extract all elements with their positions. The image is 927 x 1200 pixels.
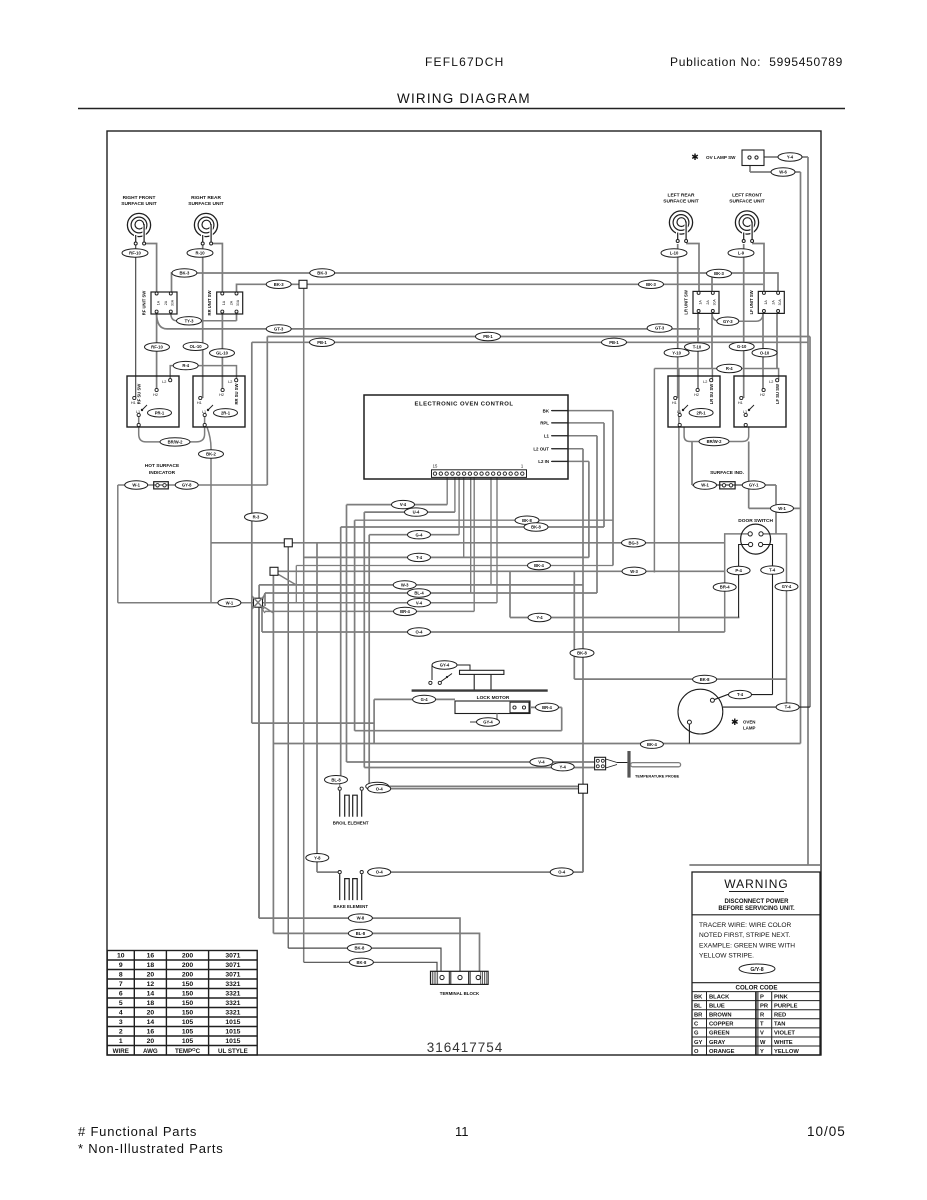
svg-text:LEFT FRONT: LEFT FRONT — [732, 193, 762, 199]
svg-text:O-4: O-4 — [416, 630, 424, 635]
svg-text:LEFT REAR: LEFT REAR — [668, 193, 695, 199]
svg-text:105: 105 — [182, 1019, 194, 1026]
svg-text:H1: H1 — [738, 401, 743, 405]
svg-text:200: 200 — [182, 962, 194, 969]
svg-text:ORANGE: ORANGE — [709, 1049, 735, 1055]
svg-text:30A: 30A — [236, 299, 240, 306]
svg-text:UL STYLE: UL STYLE — [218, 1048, 248, 1055]
svg-text:GY-4: GY-4 — [440, 663, 450, 668]
svg-text:BK-8: BK-8 — [577, 651, 587, 656]
svg-text:RIGHT REAR: RIGHT REAR — [191, 195, 221, 201]
svg-text:G-10: G-10 — [737, 344, 747, 349]
svg-text:BR-4: BR-4 — [720, 585, 730, 590]
svg-text:30A: 30A — [713, 299, 717, 306]
svg-text:AWG: AWG — [143, 1048, 158, 1055]
svg-text:T-4: T-4 — [769, 568, 776, 573]
svg-text:G/Y-8: G/Y-8 — [750, 967, 763, 973]
svg-text:BR/W-2: BR/W-2 — [168, 440, 183, 445]
svg-text:L1: L1 — [544, 434, 550, 439]
svg-text:RR SU SW: RR SU SW — [234, 383, 239, 404]
svg-text:BL-4: BL-4 — [414, 591, 424, 596]
svg-text:BROIL ELEMENT: BROIL ELEMENT — [333, 821, 369, 826]
svg-text:GY-8: GY-8 — [182, 483, 192, 488]
svg-text:PURPLE: PURPLE — [774, 1003, 798, 1009]
svg-text:RF-10: RF-10 — [129, 251, 141, 256]
svg-text:W-1: W-1 — [226, 600, 234, 605]
svg-text:L2: L2 — [703, 380, 707, 384]
svg-text:SURFACE UNIT: SURFACE UNIT — [121, 201, 157, 207]
svg-text:O-4: O-4 — [376, 870, 384, 875]
svg-text:BG-3: BG-3 — [628, 540, 639, 545]
svg-text:LF SU SW: LF SU SW — [775, 384, 780, 404]
svg-text:L-9: L-9 — [738, 251, 745, 256]
svg-text:TRACER WIRE: WIRE COLOR: TRACER WIRE: WIRE COLOR — [699, 922, 792, 929]
svg-text:3321: 3321 — [225, 991, 240, 998]
svg-text:GY-3: GY-3 — [723, 319, 733, 324]
svg-text:RIGHT FRONT: RIGHT FRONT — [123, 195, 156, 201]
svg-text:HOT SURFACE: HOT SURFACE — [145, 463, 180, 469]
svg-text:GT-3: GT-3 — [655, 326, 665, 331]
svg-text:H2: H2 — [219, 393, 224, 397]
svg-text:2A: 2A — [164, 300, 168, 305]
svg-text:LR UNIT SW: LR UNIT SW — [684, 290, 689, 314]
svg-text:PB-1: PB-1 — [317, 340, 327, 345]
svg-text:NOTED FIRST, STRIPE NEXT.: NOTED FIRST, STRIPE NEXT. — [699, 932, 790, 939]
svg-text:3321: 3321 — [225, 1010, 240, 1017]
svg-text:G: G — [694, 1031, 699, 1037]
svg-text:Y-4: Y-4 — [560, 764, 567, 769]
svg-text:16: 16 — [147, 1029, 155, 1036]
svg-text:G-4: G-4 — [416, 532, 424, 537]
svg-text:TAN: TAN — [774, 1022, 785, 1028]
svg-text:BK-8: BK-8 — [355, 946, 365, 951]
svg-text:T-4: T-4 — [737, 692, 744, 697]
svg-text:GREEN: GREEN — [709, 1031, 730, 1037]
svg-text:2R-1: 2R-1 — [221, 410, 231, 415]
svg-text:YELLOW: YELLOW — [774, 1049, 799, 1055]
svg-text:8: 8 — [119, 972, 123, 979]
svg-text:YELLOW STRIPE.: YELLOW STRIPE. — [699, 953, 754, 960]
svg-text:BK: BK — [694, 994, 703, 1000]
svg-text:G-4: G-4 — [421, 697, 429, 702]
svg-text:H1: H1 — [197, 401, 202, 405]
svg-text:# Functional Parts: # Functional Parts — [78, 1124, 197, 1139]
svg-text:WHITE: WHITE — [774, 1040, 793, 1046]
svg-text:BL: BL — [694, 1003, 702, 1009]
svg-text:LF UNIT SW: LF UNIT SW — [749, 290, 754, 314]
svg-text:R-3: R-3 — [253, 515, 260, 520]
svg-text:L2: L2 — [769, 380, 773, 384]
svg-text:W-1: W-1 — [132, 483, 140, 488]
svg-text:BR/W-2: BR/W-2 — [707, 439, 722, 444]
svg-text:TEMPERATURE PROBE: TEMPERATURE PROBE — [635, 774, 680, 779]
svg-text:* Non-Illustrated Parts: * Non-Illustrated Parts — [78, 1141, 224, 1156]
svg-text:W-1: W-1 — [778, 506, 786, 511]
svg-text:L2: L2 — [228, 380, 232, 384]
svg-text:150: 150 — [182, 981, 194, 988]
svg-text:L1: L1 — [743, 410, 747, 414]
svg-text:BK-8: BK-8 — [531, 525, 541, 530]
svg-text:GY-4: GY-4 — [483, 720, 493, 725]
svg-text:BROWN: BROWN — [709, 1013, 732, 1019]
svg-text:16: 16 — [147, 953, 155, 960]
svg-text:OV LAMP SW: OV LAMP SW — [706, 155, 736, 160]
svg-text:10/05: 10/05 — [807, 1124, 846, 1139]
svg-text:H2: H2 — [153, 393, 158, 397]
svg-text:2A: 2A — [706, 300, 710, 305]
svg-text:COPPER: COPPER — [709, 1022, 734, 1028]
svg-text:200: 200 — [182, 972, 194, 979]
svg-text:12: 12 — [147, 981, 155, 988]
svg-text:BK-8: BK-8 — [357, 960, 367, 965]
svg-text:1A: 1A — [157, 300, 161, 305]
svg-text:1A: 1A — [764, 300, 768, 305]
svg-text:OVEN: OVEN — [743, 720, 755, 725]
svg-text:H2: H2 — [760, 393, 765, 397]
svg-text:3: 3 — [119, 1019, 123, 1026]
svg-text:GY: GY — [694, 1040, 703, 1046]
svg-text:FEFL67DCH: FEFL67DCH — [425, 55, 504, 69]
svg-text:L1: L1 — [677, 410, 681, 414]
svg-text:H1: H1 — [131, 401, 136, 405]
svg-text:DOOR SWITCH: DOOR SWITCH — [738, 518, 773, 524]
svg-text:V-4: V-4 — [538, 760, 545, 765]
svg-text:P-4: P-4 — [735, 568, 742, 573]
svg-text:L1: L1 — [136, 410, 140, 414]
svg-text:EXAMPLE: GREEN WIRE WITH: EXAMPLE: GREEN WIRE WITH — [699, 942, 795, 949]
svg-text:TY-3: TY-3 — [185, 318, 195, 323]
svg-text:BK-8: BK-8 — [522, 518, 532, 523]
svg-text:WIRE: WIRE — [113, 1048, 129, 1055]
svg-text:SURFACE UNIT: SURFACE UNIT — [188, 201, 224, 207]
svg-text:T: T — [760, 1022, 764, 1028]
svg-text:LOCK MOTOR: LOCK MOTOR — [477, 695, 510, 701]
svg-text:T-4: T-4 — [416, 555, 423, 560]
svg-text:✱: ✱ — [691, 152, 699, 162]
svg-text:W-8: W-8 — [357, 916, 365, 921]
svg-text:W-6: W-6 — [779, 170, 787, 175]
svg-text:W-3: W-3 — [630, 569, 638, 574]
svg-text:SURFACE IND.: SURFACE IND. — [710, 470, 744, 476]
svg-text:1015: 1015 — [225, 1019, 240, 1026]
svg-text:1A: 1A — [222, 300, 226, 305]
svg-text:TEMPOC: TEMPOC — [175, 1047, 201, 1055]
svg-text:SURFACE UNIT: SURFACE UNIT — [729, 199, 765, 205]
svg-text:6: 6 — [119, 991, 123, 998]
svg-text:PB-1: PB-1 — [483, 334, 493, 339]
svg-text:3071: 3071 — [225, 953, 240, 960]
svg-text:20: 20 — [147, 972, 155, 979]
svg-text:W-1: W-1 — [701, 483, 709, 488]
svg-text:10: 10 — [117, 953, 125, 960]
svg-text:LAMP: LAMP — [743, 726, 756, 731]
svg-text:11: 11 — [455, 1124, 469, 1139]
svg-text:20: 20 — [147, 1010, 155, 1017]
svg-text:WARNING: WARNING — [724, 877, 789, 891]
svg-text:Y-4: Y-4 — [536, 615, 543, 620]
svg-text:Y-4: Y-4 — [787, 155, 794, 160]
svg-text:30A: 30A — [778, 299, 782, 306]
svg-text:BK-8: BK-8 — [700, 677, 710, 682]
svg-text:BK-4: BK-4 — [647, 742, 657, 747]
svg-text:L2 IN: L2 IN — [538, 459, 549, 464]
svg-text:L2: L2 — [162, 380, 166, 384]
svg-text:BL-8: BL-8 — [356, 931, 366, 936]
svg-text:Y-8: Y-8 — [314, 855, 321, 860]
svg-text:BK-2: BK-2 — [206, 452, 216, 457]
svg-text:ELECTRONIC OVEN CONTROL: ELECTRONIC OVEN CONTROL — [415, 402, 514, 408]
svg-text:3321: 3321 — [225, 1000, 240, 1007]
svg-text:BLUE: BLUE — [709, 1003, 725, 1009]
svg-text:GY-4: GY-4 — [782, 584, 792, 589]
svg-text:BK-3: BK-3 — [180, 271, 190, 276]
svg-text:Publication No: 5995450789: Publication No: 5995450789 — [670, 55, 843, 69]
svg-text:316417754: 316417754 — [427, 1040, 504, 1055]
svg-text:2: 2 — [119, 1029, 123, 1036]
svg-text:GT-3: GT-3 — [274, 327, 284, 332]
svg-text:O-4: O-4 — [376, 786, 384, 791]
svg-text:INDICATOR: INDICATOR — [149, 470, 176, 476]
svg-text:TERMINAL BLOCK: TERMINAL BLOCK — [440, 991, 480, 996]
svg-text:R-4: R-4 — [726, 366, 733, 371]
svg-text:BEFORE SERVICING UNIT.: BEFORE SERVICING UNIT. — [718, 906, 795, 912]
svg-text:15: 15 — [433, 464, 438, 469]
svg-text:3071: 3071 — [225, 962, 240, 969]
svg-text:OL-10: OL-10 — [190, 344, 203, 349]
svg-text:H1: H1 — [672, 401, 677, 405]
svg-text:14: 14 — [147, 991, 155, 998]
svg-text:GY-1: GY-1 — [749, 483, 759, 488]
svg-text:2A: 2A — [771, 300, 775, 305]
svg-text:200: 200 — [182, 953, 194, 960]
svg-text:GL-10: GL-10 — [216, 351, 229, 356]
svg-text:✱: ✱ — [731, 717, 739, 727]
svg-text:RF SU SW: RF SU SW — [137, 384, 142, 405]
svg-text:O-10: O-10 — [760, 350, 770, 355]
svg-text:P: P — [760, 994, 764, 1000]
svg-text:LR SU SW: LR SU SW — [709, 384, 714, 405]
svg-text:150: 150 — [182, 1010, 194, 1017]
svg-text:1015: 1015 — [225, 1038, 240, 1045]
svg-text:GRAY: GRAY — [709, 1040, 725, 1046]
svg-text:T-10: T-10 — [693, 345, 702, 350]
svg-text:BR-4: BR-4 — [400, 609, 410, 614]
svg-text:RED: RED — [774, 1013, 786, 1019]
svg-text:RF UNIT SW: RF UNIT SW — [142, 291, 147, 315]
svg-text:18: 18 — [147, 1000, 155, 1007]
svg-text:1A: 1A — [699, 300, 703, 305]
svg-text:105: 105 — [182, 1038, 194, 1045]
svg-text:H2: H2 — [694, 393, 699, 397]
svg-text:BL-8: BL-8 — [331, 777, 341, 782]
svg-text:L1: L1 — [202, 410, 206, 414]
svg-text:O: O — [694, 1049, 699, 1055]
svg-text:BR-4: BR-4 — [542, 705, 552, 710]
svg-text:1: 1 — [119, 1038, 123, 1045]
svg-text:BLACK: BLACK — [709, 994, 730, 1000]
svg-text:R-10: R-10 — [195, 251, 205, 256]
svg-text:150: 150 — [182, 1000, 194, 1007]
svg-text:150: 150 — [182, 991, 194, 998]
svg-text:PR: PR — [760, 1003, 769, 1009]
svg-text:W-3: W-3 — [401, 583, 409, 588]
svg-text:BK-3: BK-3 — [714, 271, 724, 276]
svg-text:T-4: T-4 — [785, 705, 792, 710]
svg-text:VIOLET: VIOLET — [774, 1031, 795, 1037]
svg-text:BR: BR — [694, 1013, 703, 1019]
svg-text:PB-1: PB-1 — [609, 340, 619, 345]
svg-text:RR UNIT SW: RR UNIT SW — [207, 291, 212, 316]
svg-text:2A: 2A — [230, 300, 234, 305]
svg-text:SURFACE UNIT: SURFACE UNIT — [663, 199, 699, 205]
svg-text:BK-3: BK-3 — [274, 282, 284, 287]
svg-text:BAKE ELEMENT: BAKE ELEMENT — [333, 904, 368, 909]
svg-text:COLOR CODE: COLOR CODE — [736, 985, 778, 992]
svg-text:U-4: U-4 — [413, 510, 420, 515]
svg-text:V-4: V-4 — [400, 502, 407, 507]
svg-text:3071: 3071 — [225, 972, 240, 979]
svg-text:4: 4 — [119, 1010, 123, 1017]
svg-text:V-4: V-4 — [416, 600, 423, 605]
svg-text:O-4: O-4 — [558, 870, 566, 875]
svg-text:RF-10: RF-10 — [151, 345, 163, 350]
svg-text:18: 18 — [147, 962, 155, 969]
svg-text:DISCONNECT POWER: DISCONNECT POWER — [724, 899, 789, 905]
svg-text:3321: 3321 — [225, 981, 240, 988]
svg-text:2R-1: 2R-1 — [697, 410, 707, 415]
svg-text:Y: Y — [760, 1049, 764, 1055]
svg-text:BK-3: BK-3 — [646, 282, 656, 287]
svg-text:105: 105 — [182, 1029, 194, 1036]
svg-text:5: 5 — [119, 1000, 123, 1007]
svg-text:PR-1: PR-1 — [155, 410, 165, 415]
svg-text:9: 9 — [119, 962, 123, 969]
svg-text:R-4: R-4 — [182, 363, 189, 368]
svg-text:V: V — [760, 1031, 764, 1037]
svg-text:RPL: RPL — [540, 421, 549, 426]
svg-text:Y-10: Y-10 — [672, 350, 681, 355]
svg-text:BK-3: BK-3 — [317, 271, 327, 276]
svg-text:7: 7 — [119, 981, 123, 988]
svg-text:L-10: L-10 — [670, 251, 679, 256]
svg-text:20: 20 — [147, 1038, 155, 1045]
svg-text:1015: 1015 — [225, 1029, 240, 1036]
svg-text:W: W — [760, 1040, 766, 1046]
svg-text:BK-4: BK-4 — [534, 563, 544, 568]
svg-text:14: 14 — [147, 1019, 155, 1026]
svg-text:BK: BK — [543, 408, 550, 413]
svg-text:L2 OUT: L2 OUT — [533, 447, 549, 452]
svg-text:PINK: PINK — [774, 994, 789, 1000]
svg-text:30A: 30A — [171, 299, 175, 306]
svg-text:WIRING DIAGRAM: WIRING DIAGRAM — [397, 91, 531, 106]
